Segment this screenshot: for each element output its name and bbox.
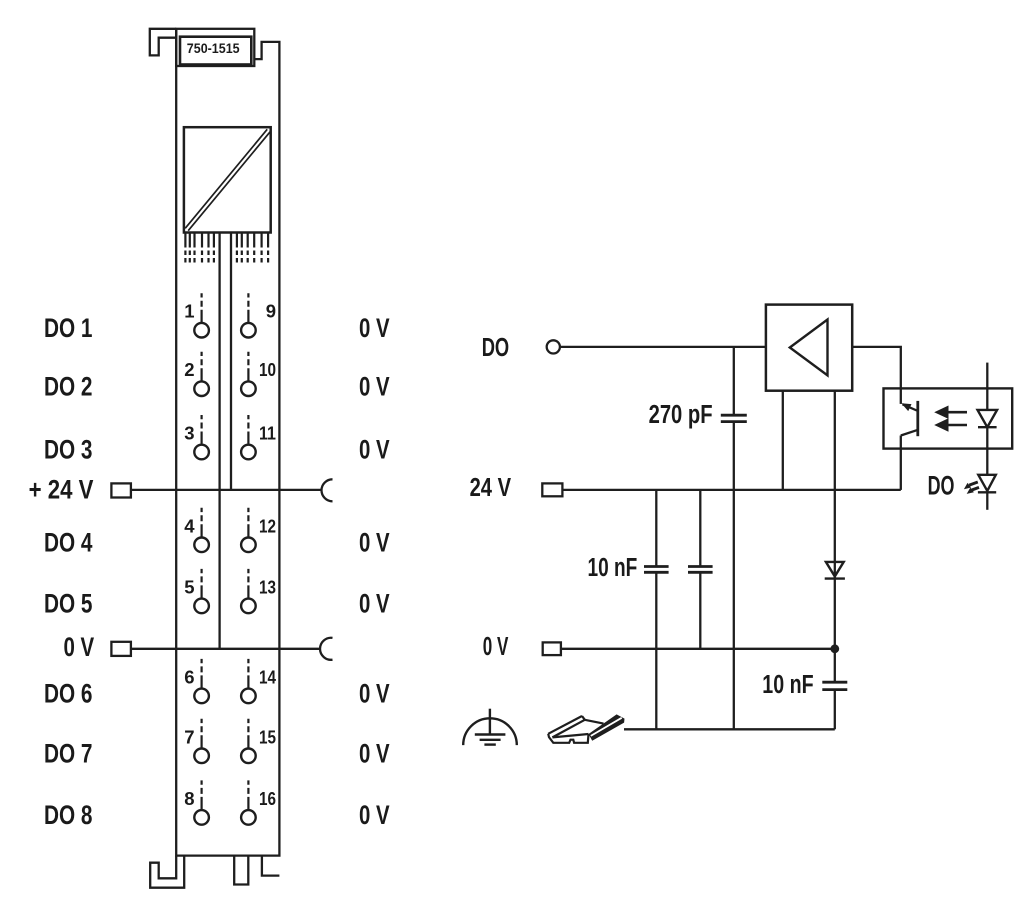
pin number 2 (184, 359, 194, 380)
24V rail wire (562, 489, 900, 491)
wire LED anode stub (986, 363, 988, 410)
optocoupler phototransistor Q1 (901, 388, 918, 448)
svg-text:13: 13 (259, 576, 276, 597)
0V wire through module (131, 648, 321, 650)
capacitors 10nF label (588, 554, 638, 582)
label 0V row 1 (359, 313, 390, 343)
svg-text:270 pF: 270 pF (649, 401, 713, 429)
svg-text:2: 2 (184, 359, 194, 380)
optocoupler light arrow 2 (934, 418, 967, 431)
internal bus line 24V (230, 233, 232, 490)
svg-text:+ 24 V: + 24 V (29, 475, 94, 505)
wire amplifier output to optocoupler (852, 347, 901, 389)
0V terminal label (64, 632, 95, 662)
svg-text:0 V: 0 V (359, 435, 390, 465)
label box outer (176, 29, 254, 66)
svg-text:DO 8: DO 8 (44, 800, 93, 830)
DIN rail symbol (548, 714, 624, 742)
svg-text:0 V: 0 V (359, 589, 390, 619)
0V terminal label schematic (483, 633, 509, 661)
status LED diode (978, 475, 996, 493)
optocoupler light arrow 1 (934, 406, 967, 419)
svg-text:DO: DO (928, 471, 955, 501)
amplifier triangle (790, 320, 828, 376)
wire emitter to 24V rail (900, 449, 902, 490)
pin number 11 (259, 423, 276, 444)
svg-text:10 nF: 10 nF (588, 554, 638, 582)
svg-text:7: 7 (184, 726, 194, 747)
24V terminal label (470, 474, 512, 502)
contact 13 (241, 569, 256, 613)
contact 5 (194, 569, 209, 613)
svg-text:10: 10 (259, 359, 276, 380)
contact 3 (194, 415, 209, 459)
svg-text:16: 16 (259, 788, 276, 809)
svg-text:1: 1 (184, 301, 194, 322)
+24V terminal square (111, 483, 130, 497)
svg-text:0 V: 0 V (359, 800, 390, 830)
svg-text:0 V: 0 V (359, 528, 390, 558)
label 0V row 2 (359, 371, 390, 401)
capacitor 270pF label (649, 401, 713, 429)
svg-text:DO 5: DO 5 (44, 589, 93, 619)
node DO input label (482, 334, 510, 362)
pin number 6 (184, 666, 194, 687)
pin number 10 (259, 359, 276, 380)
pin number 5 (184, 576, 194, 597)
optocoupler LED (978, 410, 998, 427)
label DO 3 (44, 435, 93, 465)
24V terminal square (542, 483, 562, 496)
svg-text:8: 8 (184, 788, 194, 809)
pin number 8 (184, 788, 194, 809)
label DO 6 (44, 679, 93, 709)
wire amplifier pin to 24V rail (782, 391, 784, 490)
capacitor C3 10nF label (762, 671, 813, 699)
DO input terminal circle (547, 340, 560, 353)
status LED DO label (928, 471, 955, 501)
wire C2 branch 24V to 0V (699, 490, 701, 649)
label text 750-1515 (187, 40, 240, 56)
svg-text:11: 11 (259, 423, 276, 444)
svg-text:DO 6: DO 6 (44, 679, 93, 709)
amplifier U1 box (766, 305, 852, 391)
pin number 14 (259, 666, 277, 687)
0V terminal square schematic (543, 642, 561, 655)
svg-text:750-1515: 750-1515 (187, 40, 240, 56)
svg-text:12: 12 (259, 515, 276, 536)
pin number 15 (259, 726, 276, 747)
contact 11 (241, 415, 256, 459)
label 0V row 7 (359, 739, 390, 769)
label DO 4 (44, 528, 93, 558)
pin number 4 (184, 515, 195, 536)
bus pins right group (237, 233, 268, 263)
svg-text:14: 14 (259, 666, 277, 687)
electronics box with diagonal (184, 127, 271, 232)
svg-text:0 V: 0 V (359, 739, 390, 769)
junction node dot (830, 644, 839, 653)
0V pass-through arc (320, 638, 332, 660)
pin number 1 (184, 301, 194, 322)
pin number 12 (259, 515, 276, 536)
label 0V row 3 (359, 435, 390, 465)
functional earth symbol (463, 709, 517, 745)
svg-text:0 V: 0 V (359, 371, 390, 401)
svg-text:15: 15 (259, 726, 276, 747)
contact 10 (241, 352, 256, 396)
contact 14 (241, 659, 256, 703)
contact 7 (194, 719, 209, 763)
svg-text:0 V: 0 V (483, 633, 509, 661)
label 0V row 5 (359, 589, 390, 619)
capacitor C2 10nF (688, 567, 713, 573)
wire DO to amplifier (560, 346, 766, 348)
wire 270pF branch (733, 347, 735, 729)
label DO 7 (44, 739, 93, 769)
label DO 1 (44, 313, 93, 343)
svg-text:DO 1: DO 1 (44, 313, 93, 343)
label 0V row 8 (359, 800, 390, 830)
svg-text:24 V: 24 V (470, 474, 512, 502)
bottom left mounting foot (150, 856, 184, 888)
label DO 2 (44, 371, 93, 401)
wire C3 to shield rail (834, 690, 836, 730)
+24V wire through module (131, 489, 321, 491)
contact 12 (241, 508, 256, 552)
svg-text:10 nF: 10 nF (762, 671, 813, 699)
pin number 3 (184, 423, 194, 444)
label box inner (180, 37, 251, 65)
pin number 7 (184, 726, 194, 747)
wire LED through to status LED (986, 427, 988, 475)
module 750-1515 body outline (176, 29, 279, 856)
0V terminal square (111, 642, 130, 656)
wire status LED cathode (986, 492, 988, 510)
label 0V row 6 (359, 679, 390, 709)
svg-text:6: 6 (184, 666, 194, 687)
contact 2 (194, 352, 209, 396)
contact 4 (194, 508, 209, 552)
svg-text:DO 7: DO 7 (44, 739, 93, 769)
label DO 5 (44, 589, 93, 619)
svg-text:4: 4 (184, 515, 195, 536)
svg-text:3: 3 (184, 423, 194, 444)
svg-text:DO 4: DO 4 (44, 528, 93, 558)
contact 6 (194, 659, 209, 703)
bottom right foot (262, 856, 280, 876)
0V rail wire (561, 648, 835, 650)
svg-text:0 V: 0 V (64, 632, 95, 662)
svg-text:0 V: 0 V (359, 679, 390, 709)
contact 9 (241, 293, 256, 337)
svg-text:0 V: 0 V (359, 313, 390, 343)
contact 8 (194, 780, 209, 824)
mounting hook top-left (150, 29, 176, 56)
svg-text:5: 5 (184, 576, 194, 597)
contact 1 (194, 293, 209, 337)
bottom middle foot (234, 856, 248, 885)
capacitor 270pF (721, 415, 747, 421)
svg-text:DO 3: DO 3 (44, 435, 93, 465)
pin number 9 (266, 301, 276, 322)
capacitor C1 10nF (644, 567, 669, 573)
label 0V row 4 (359, 528, 390, 558)
wire amplifier pin to diode branch (834, 391, 836, 683)
pin number 13 (259, 576, 276, 597)
optocoupler U2 box (884, 388, 1013, 448)
capacitor C3 10nF (822, 682, 847, 689)
label DO 8 (44, 800, 93, 830)
svg-text:9: 9 (266, 301, 276, 322)
shield rail wire (624, 728, 835, 730)
+24V pass-through arc (322, 479, 333, 501)
status LED lightning arrows (964, 482, 979, 494)
+24V terminal label (29, 475, 94, 505)
diode D1 freewheel (825, 562, 845, 579)
contact 15 (241, 719, 256, 763)
svg-text:DO: DO (482, 334, 510, 362)
internal bus line 0V (218, 233, 220, 649)
svg-text:DO 2: DO 2 (44, 371, 93, 401)
pin number 16 (259, 788, 276, 809)
bus pins left group (185, 233, 214, 263)
contact 16 (241, 780, 256, 824)
wire C1 branch 24V to shield rail (655, 490, 657, 729)
